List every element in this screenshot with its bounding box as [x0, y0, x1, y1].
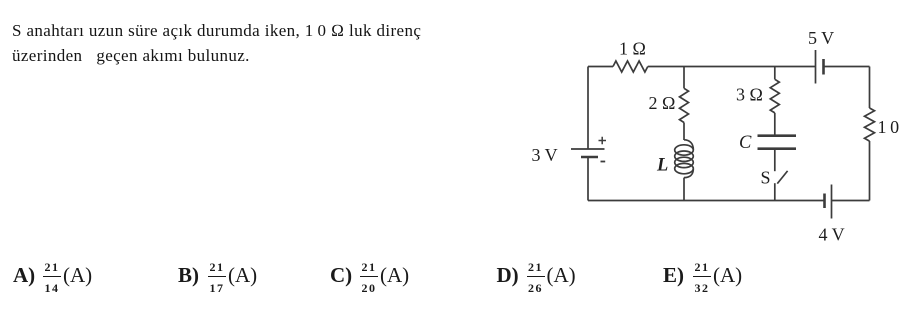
label 5 V: [808, 28, 834, 48]
wire branch-C top: [774, 67, 776, 80]
wire left lower segment: [587, 157, 589, 201]
wire between R2 and L: [683, 123, 685, 141]
wire bottom segment: [588, 200, 825, 202]
svg-text:2 Ω: 2 Ω: [649, 93, 676, 113]
label 3 ohm: [736, 85, 763, 105]
svg-text:S: S: [761, 168, 771, 188]
inductor L loop 1: [675, 145, 694, 155]
label plus: [599, 137, 607, 144]
battery B3 4V long plate: [831, 185, 833, 219]
svg-text:1 0: 1 0: [878, 117, 900, 137]
svg-text:C: C: [739, 133, 752, 153]
inductor L loop 4: [675, 163, 694, 173]
label minus: [601, 161, 606, 163]
wire top-right segment: [824, 66, 870, 68]
wire branch-L top: [683, 67, 685, 89]
svg-text:L: L: [656, 156, 668, 176]
svg-text:4 V: 4 V: [819, 225, 845, 245]
wire between C and S: [774, 149, 776, 172]
wire branch-L bottom: [683, 178, 685, 201]
label 1 ohm: [619, 39, 646, 59]
capacitor C top plate: [758, 134, 797, 137]
label 2 ohm: [649, 93, 676, 113]
capacitor C bottom plate: [758, 147, 797, 150]
battery B2 3V short plate: [581, 156, 598, 159]
label 4 V: [819, 225, 845, 245]
resistor R1 1-ohm: [613, 61, 648, 72]
switch S blade: [777, 171, 787, 184]
svg-text:3 Ω: 3 Ω: [736, 85, 763, 105]
wire top-middle segment: [648, 66, 816, 68]
resistor R4 10-ohm: [865, 108, 875, 141]
label S: [761, 168, 771, 188]
inductor L bottom hook: [684, 169, 693, 178]
label C: [739, 133, 752, 153]
wire top-left segment: [588, 66, 613, 68]
svg-text:1 Ω: 1 Ω: [619, 39, 646, 59]
wire bottom-right corner to battery: [832, 200, 870, 202]
inductor L loop 3: [675, 157, 694, 167]
wire right upper segment: [869, 67, 871, 109]
inductor L top hook: [684, 140, 693, 150]
wire between R3 and C: [774, 113, 776, 135]
label L: [656, 156, 668, 176]
resistor R3 3-ohm: [770, 79, 779, 113]
battery B3 4V short plate: [823, 194, 826, 209]
svg-text:5 V: 5 V: [808, 28, 834, 48]
label 10: [878, 117, 900, 137]
label 3 V: [532, 145, 558, 165]
wire right lower segment: [869, 141, 871, 201]
wire branch-S bottom: [774, 183, 776, 200]
battery B2 3V long plate: [571, 148, 605, 150]
wire left upper segment: [587, 67, 589, 150]
battery B1 5V short plate: [822, 59, 825, 75]
battery B1 5V long plate: [815, 50, 817, 84]
svg-text:3 V: 3 V: [532, 145, 558, 165]
resistor R2 2-ohm: [680, 88, 689, 122]
inductor L loop 2: [675, 151, 694, 161]
